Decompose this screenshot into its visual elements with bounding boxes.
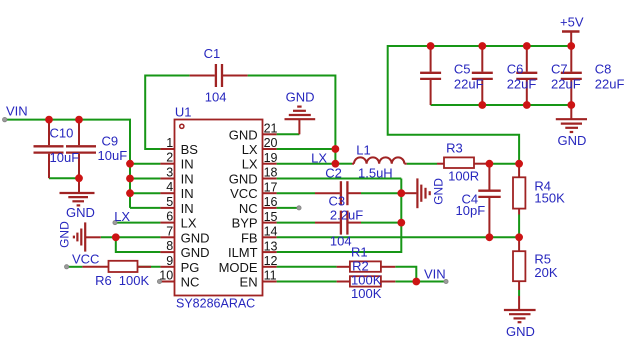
svg-text:6: 6	[166, 210, 173, 224]
svg-text:7: 7	[166, 224, 173, 238]
svg-text:20: 20	[264, 136, 278, 150]
svg-text:VCC: VCC	[230, 186, 257, 201]
svg-text:IN: IN	[181, 186, 194, 201]
svg-text:BS: BS	[181, 142, 199, 157]
svg-text:LX: LX	[242, 157, 258, 172]
svg-text:GND: GND	[558, 133, 587, 148]
svg-text:11: 11	[264, 269, 277, 283]
svg-text:4: 4	[166, 180, 173, 194]
svg-text:19: 19	[264, 151, 278, 165]
svg-text:NC: NC	[239, 201, 258, 216]
svg-text:1: 1	[166, 136, 173, 150]
svg-text:100K: 100K	[351, 286, 382, 301]
svg-text:104: 104	[330, 234, 352, 249]
svg-text:C6: C6	[507, 61, 524, 76]
svg-text:15: 15	[264, 210, 278, 224]
svg-text:100K: 100K	[119, 273, 150, 288]
svg-text:R2: R2	[352, 258, 369, 273]
svg-text:LX: LX	[311, 151, 327, 166]
svg-text:18: 18	[264, 166, 278, 180]
svg-text:100R: 100R	[448, 169, 479, 184]
svg-text:IN: IN	[181, 172, 194, 187]
svg-text:GND: GND	[432, 178, 446, 205]
svg-text:16: 16	[264, 195, 278, 209]
svg-text:C5: C5	[454, 61, 471, 76]
svg-text:GND: GND	[181, 245, 210, 260]
svg-text:C10: C10	[50, 125, 74, 140]
svg-text:LX: LX	[242, 142, 258, 157]
svg-text:MODE: MODE	[219, 260, 258, 275]
svg-text:C1: C1	[204, 46, 221, 61]
svg-text:10uF: 10uF	[98, 148, 128, 163]
svg-text:10uF: 10uF	[50, 150, 80, 165]
svg-text:BYP: BYP	[232, 216, 258, 231]
svg-text:VIN: VIN	[424, 266, 446, 281]
svg-text:C8: C8	[595, 61, 612, 76]
svg-text:150K: 150K	[534, 191, 565, 206]
svg-text:14: 14	[264, 225, 278, 239]
svg-text:GND: GND	[229, 127, 258, 142]
svg-text:R3: R3	[446, 140, 463, 155]
svg-text:104: 104	[205, 90, 227, 105]
svg-text:LX: LX	[181, 216, 197, 231]
svg-text:12: 12	[264, 254, 278, 268]
svg-text:22uF: 22uF	[551, 76, 581, 91]
svg-text:10pF: 10pF	[456, 203, 486, 218]
svg-text:1.5uH: 1.5uH	[358, 165, 393, 180]
svg-text:9: 9	[166, 254, 173, 268]
svg-text:VCC: VCC	[72, 251, 99, 266]
svg-text:L1: L1	[356, 142, 370, 157]
svg-text:22uF: 22uF	[595, 76, 625, 91]
svg-text:SY8286ARAC: SY8286ARAC	[176, 296, 255, 310]
svg-text:2.2uF: 2.2uF	[330, 207, 363, 222]
svg-text:GND: GND	[506, 324, 535, 339]
svg-text:GND: GND	[181, 230, 210, 245]
svg-text:C7: C7	[551, 61, 568, 76]
svg-text:R6: R6	[95, 273, 112, 288]
svg-text:3: 3	[166, 166, 173, 180]
svg-text:8: 8	[166, 239, 173, 253]
svg-text:10: 10	[159, 269, 173, 283]
svg-text:GND: GND	[57, 221, 71, 248]
svg-text:FB: FB	[241, 230, 258, 245]
svg-text:22uF: 22uF	[507, 76, 537, 91]
svg-text:GND: GND	[229, 172, 258, 187]
svg-text:C2: C2	[325, 166, 342, 181]
svg-text:ILMT: ILMT	[228, 245, 258, 260]
svg-text:17: 17	[264, 180, 278, 194]
svg-text:GND: GND	[66, 205, 95, 220]
svg-text:U1: U1	[175, 104, 192, 119]
svg-text:LX: LX	[114, 209, 130, 224]
svg-text:C9: C9	[102, 134, 119, 149]
svg-text:21: 21	[264, 122, 278, 136]
svg-text:EN: EN	[240, 275, 258, 290]
svg-text:VIN: VIN	[6, 104, 28, 119]
svg-text:IN: IN	[181, 201, 194, 216]
svg-text:5: 5	[166, 195, 173, 209]
svg-text:R1: R1	[351, 244, 368, 259]
svg-text:13: 13	[264, 239, 278, 253]
svg-text:PG: PG	[181, 260, 200, 275]
svg-text:20K: 20K	[534, 265, 557, 280]
svg-text:GND: GND	[286, 90, 315, 105]
svg-text:IN: IN	[181, 157, 194, 172]
svg-text:22uF: 22uF	[454, 76, 484, 91]
svg-text:C3: C3	[329, 194, 346, 209]
svg-text:2: 2	[166, 151, 173, 165]
svg-text:NC: NC	[181, 275, 200, 290]
svg-text:+5V: +5V	[560, 15, 584, 30]
